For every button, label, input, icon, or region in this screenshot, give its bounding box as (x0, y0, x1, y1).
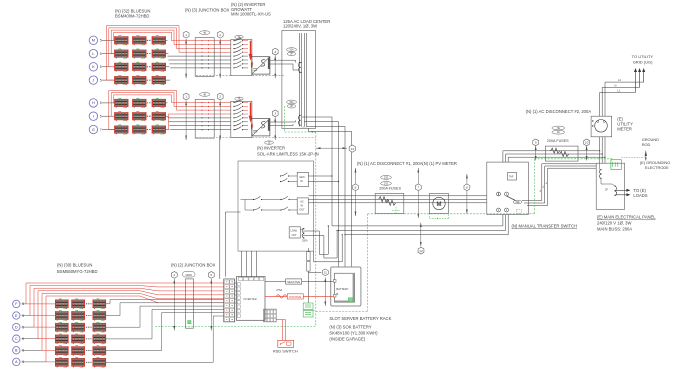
svg-text:L: L (92, 52, 94, 56)
svg-text:50A: 50A (289, 101, 294, 104)
svg-text:H: H (92, 101, 95, 105)
svg-text:200A FUSES: 200A FUSES (547, 139, 569, 143)
svg-text:7: 7 (417, 185, 419, 189)
svg-text:(N) (1) AC DISCONNECT #2, 200A: (N) (1) AC DISCONNECT #2, 200A (526, 109, 592, 114)
svg-text:7: 7 (100, 128, 102, 132)
svg-text:IN: IN (300, 180, 303, 183)
svg-text:6: 6 (355, 185, 357, 189)
svg-text:TAP: TAP (509, 176, 514, 179)
svg-text:2SE: 2SE (384, 177, 389, 179)
svg-text:+: + (252, 63, 254, 66)
svg-text:(E) MAIN ELECTRICAL PANEL: (E) MAIN ELECTRICAL PANEL (597, 215, 656, 220)
svg-text:1E: 1E (557, 132, 560, 134)
svg-text:200A FUSES: 200A FUSES (379, 187, 401, 191)
svg-text:3: 3 (274, 50, 276, 54)
svg-text:(N) (3) SOK BATTERY: (N) (3) SOK BATTERY (329, 324, 371, 329)
svg-text:5: 5 (100, 52, 102, 56)
svg-text:(INSIDE GARAGE): (INSIDE GARAGE) (329, 336, 365, 341)
svg-text:HE: HE (557, 128, 561, 130)
svg-text:I: I (93, 115, 94, 119)
svg-text:METER: METER (617, 127, 632, 132)
svg-text:2E: 2E (268, 143, 271, 145)
svg-text:5: 5 (22, 349, 24, 353)
svg-text:GEN: GEN (299, 176, 305, 179)
svg-text:BSM550MYG-72HBD: BSM550MYG-72HBD (57, 269, 98, 274)
svg-text:3: 3 (274, 112, 276, 116)
svg-text:2P: 2P (290, 54, 293, 56)
svg-text:TO UTILITY: TO UTILITY (632, 54, 654, 59)
svg-text:AC: AC (300, 201, 304, 204)
svg-text:G: G (92, 128, 95, 132)
svg-text:SK48V100 (Y1.300 KWH): SK48V100 (Y1.300 KWH) (329, 330, 378, 335)
svg-text:LOAD: LOAD (291, 230, 298, 233)
svg-text:ELECTRODE: ELECTRODE (645, 165, 669, 170)
svg-text:5: 5 (100, 65, 102, 69)
svg-text:275A: 275A (276, 288, 282, 292)
svg-text:B: B (336, 292, 338, 296)
svg-text:240/120 V 1Ø, 3W: 240/120 V 1Ø, 3W (597, 221, 631, 226)
svg-text:(N) (2) JUNCTION BOX: (N) (2) JUNCTION BOX (171, 262, 216, 267)
svg-text:L2: L2 (618, 78, 621, 82)
svg-text:5: 5 (100, 78, 102, 82)
svg-text:GRID: GRID (185, 273, 192, 277)
svg-text:50A: 50A (289, 49, 294, 52)
svg-text:5: 5 (22, 302, 24, 306)
svg-text:8: 8 (466, 185, 468, 189)
svg-text:2S2: 2S2 (384, 183, 389, 185)
svg-text:NEGATIVE: NEGATIVE (287, 280, 300, 284)
svg-text:BATTERY: BATTERY (336, 287, 348, 291)
svg-text:N: N (615, 84, 617, 88)
svg-text:5: 5 (22, 337, 24, 341)
svg-text:120/240V, 1Ø, 3W: 120/240V, 1Ø, 3W (283, 24, 317, 29)
svg-text:SOL-ARK LIMITLESS 15K-2P-IN: SOL-ARK LIMITLESS 15K-2P-IN (257, 151, 319, 156)
svg-text:4: 4 (173, 273, 175, 277)
svg-text:12: 12 (419, 249, 423, 253)
svg-text:OUT: OUT (299, 209, 305, 212)
svg-text:C: C (15, 337, 18, 341)
svg-text:5: 5 (100, 39, 102, 43)
svg-text:11: 11 (324, 270, 327, 274)
svg-text:M: M (437, 202, 442, 208)
svg-text:4B: 4B (203, 33, 206, 35)
svg-text:9: 9 (535, 141, 537, 145)
svg-text:1: 1 (185, 33, 187, 37)
svg-text:J: J (93, 78, 95, 82)
svg-text:(N) (30) BLUESUN: (N) (30) BLUESUN (57, 263, 92, 268)
svg-text:2P: 2P (290, 106, 293, 108)
svg-text:10: 10 (585, 141, 589, 145)
svg-text:(N) MANUAL TRANSFER SWITCH: (N) MANUAL TRANSFER SWITCH (512, 223, 578, 228)
svg-text:(N) (1) PV METER: (N) (1) PV METER (422, 161, 457, 166)
svg-text:2: 2 (219, 95, 221, 99)
svg-text:+: + (252, 124, 254, 127)
svg-text:BSM400M-72HBD: BSM400M-72HBD (115, 13, 149, 18)
svg-text:LOADS: LOADS (633, 193, 647, 198)
svg-text:M: M (92, 39, 95, 43)
svg-text:5: 5 (22, 325, 24, 329)
svg-text:2: 2 (219, 33, 221, 37)
svg-text:5: 5 (22, 314, 24, 318)
svg-text:200A: 200A (302, 240, 308, 243)
svg-text:(N) (3) JUNCTION BOX: (N) (3) JUNCTION BOX (185, 8, 230, 13)
svg-text:MAIN BUSS: 200A: MAIN BUSS: 200A (597, 227, 632, 232)
svg-text:4B: 4B (203, 94, 206, 96)
svg-text:(N) INVERTER: (N) INVERTER (257, 145, 285, 150)
svg-text:(N) (1) AC DISCONNECT #1, 200A: (N) (1) AC DISCONNECT #1, 200A (357, 161, 423, 166)
svg-text:RSD SWITCH: RSD SWITCH (273, 349, 298, 354)
svg-text:2SE: 2SE (515, 202, 520, 204)
svg-text:D: D (15, 325, 18, 329)
svg-text:L1: L1 (540, 189, 542, 192)
svg-text:POSITIVE: POSITIVE (289, 295, 301, 299)
svg-text:1: 1 (185, 95, 187, 99)
svg-text:5: 5 (22, 360, 24, 364)
svg-text:OUT: OUT (292, 234, 298, 237)
svg-text:5: 5 (100, 101, 102, 105)
svg-text:INVERTER: INVERTER (244, 297, 257, 301)
svg-text:L1: L1 (618, 89, 621, 93)
svg-text:5: 5 (100, 115, 102, 119)
svg-text:IN: IN (301, 205, 304, 208)
svg-text:L1 L2: L1 L2 (302, 127, 308, 129)
svg-text:GRID (UG): GRID (UG) (633, 60, 653, 65)
svg-text:ROD: ROD (642, 142, 651, 147)
svg-text:MIN 10000TL-XH-US: MIN 10000TL-XH-US (231, 12, 271, 17)
svg-text:13: 13 (351, 147, 355, 151)
svg-text:2P: 2P (605, 189, 608, 192)
svg-text:5: 5 (210, 273, 212, 277)
svg-text:SLOT SERVER BATTERY RACK: SLOT SERVER BATTERY RACK (329, 316, 391, 321)
